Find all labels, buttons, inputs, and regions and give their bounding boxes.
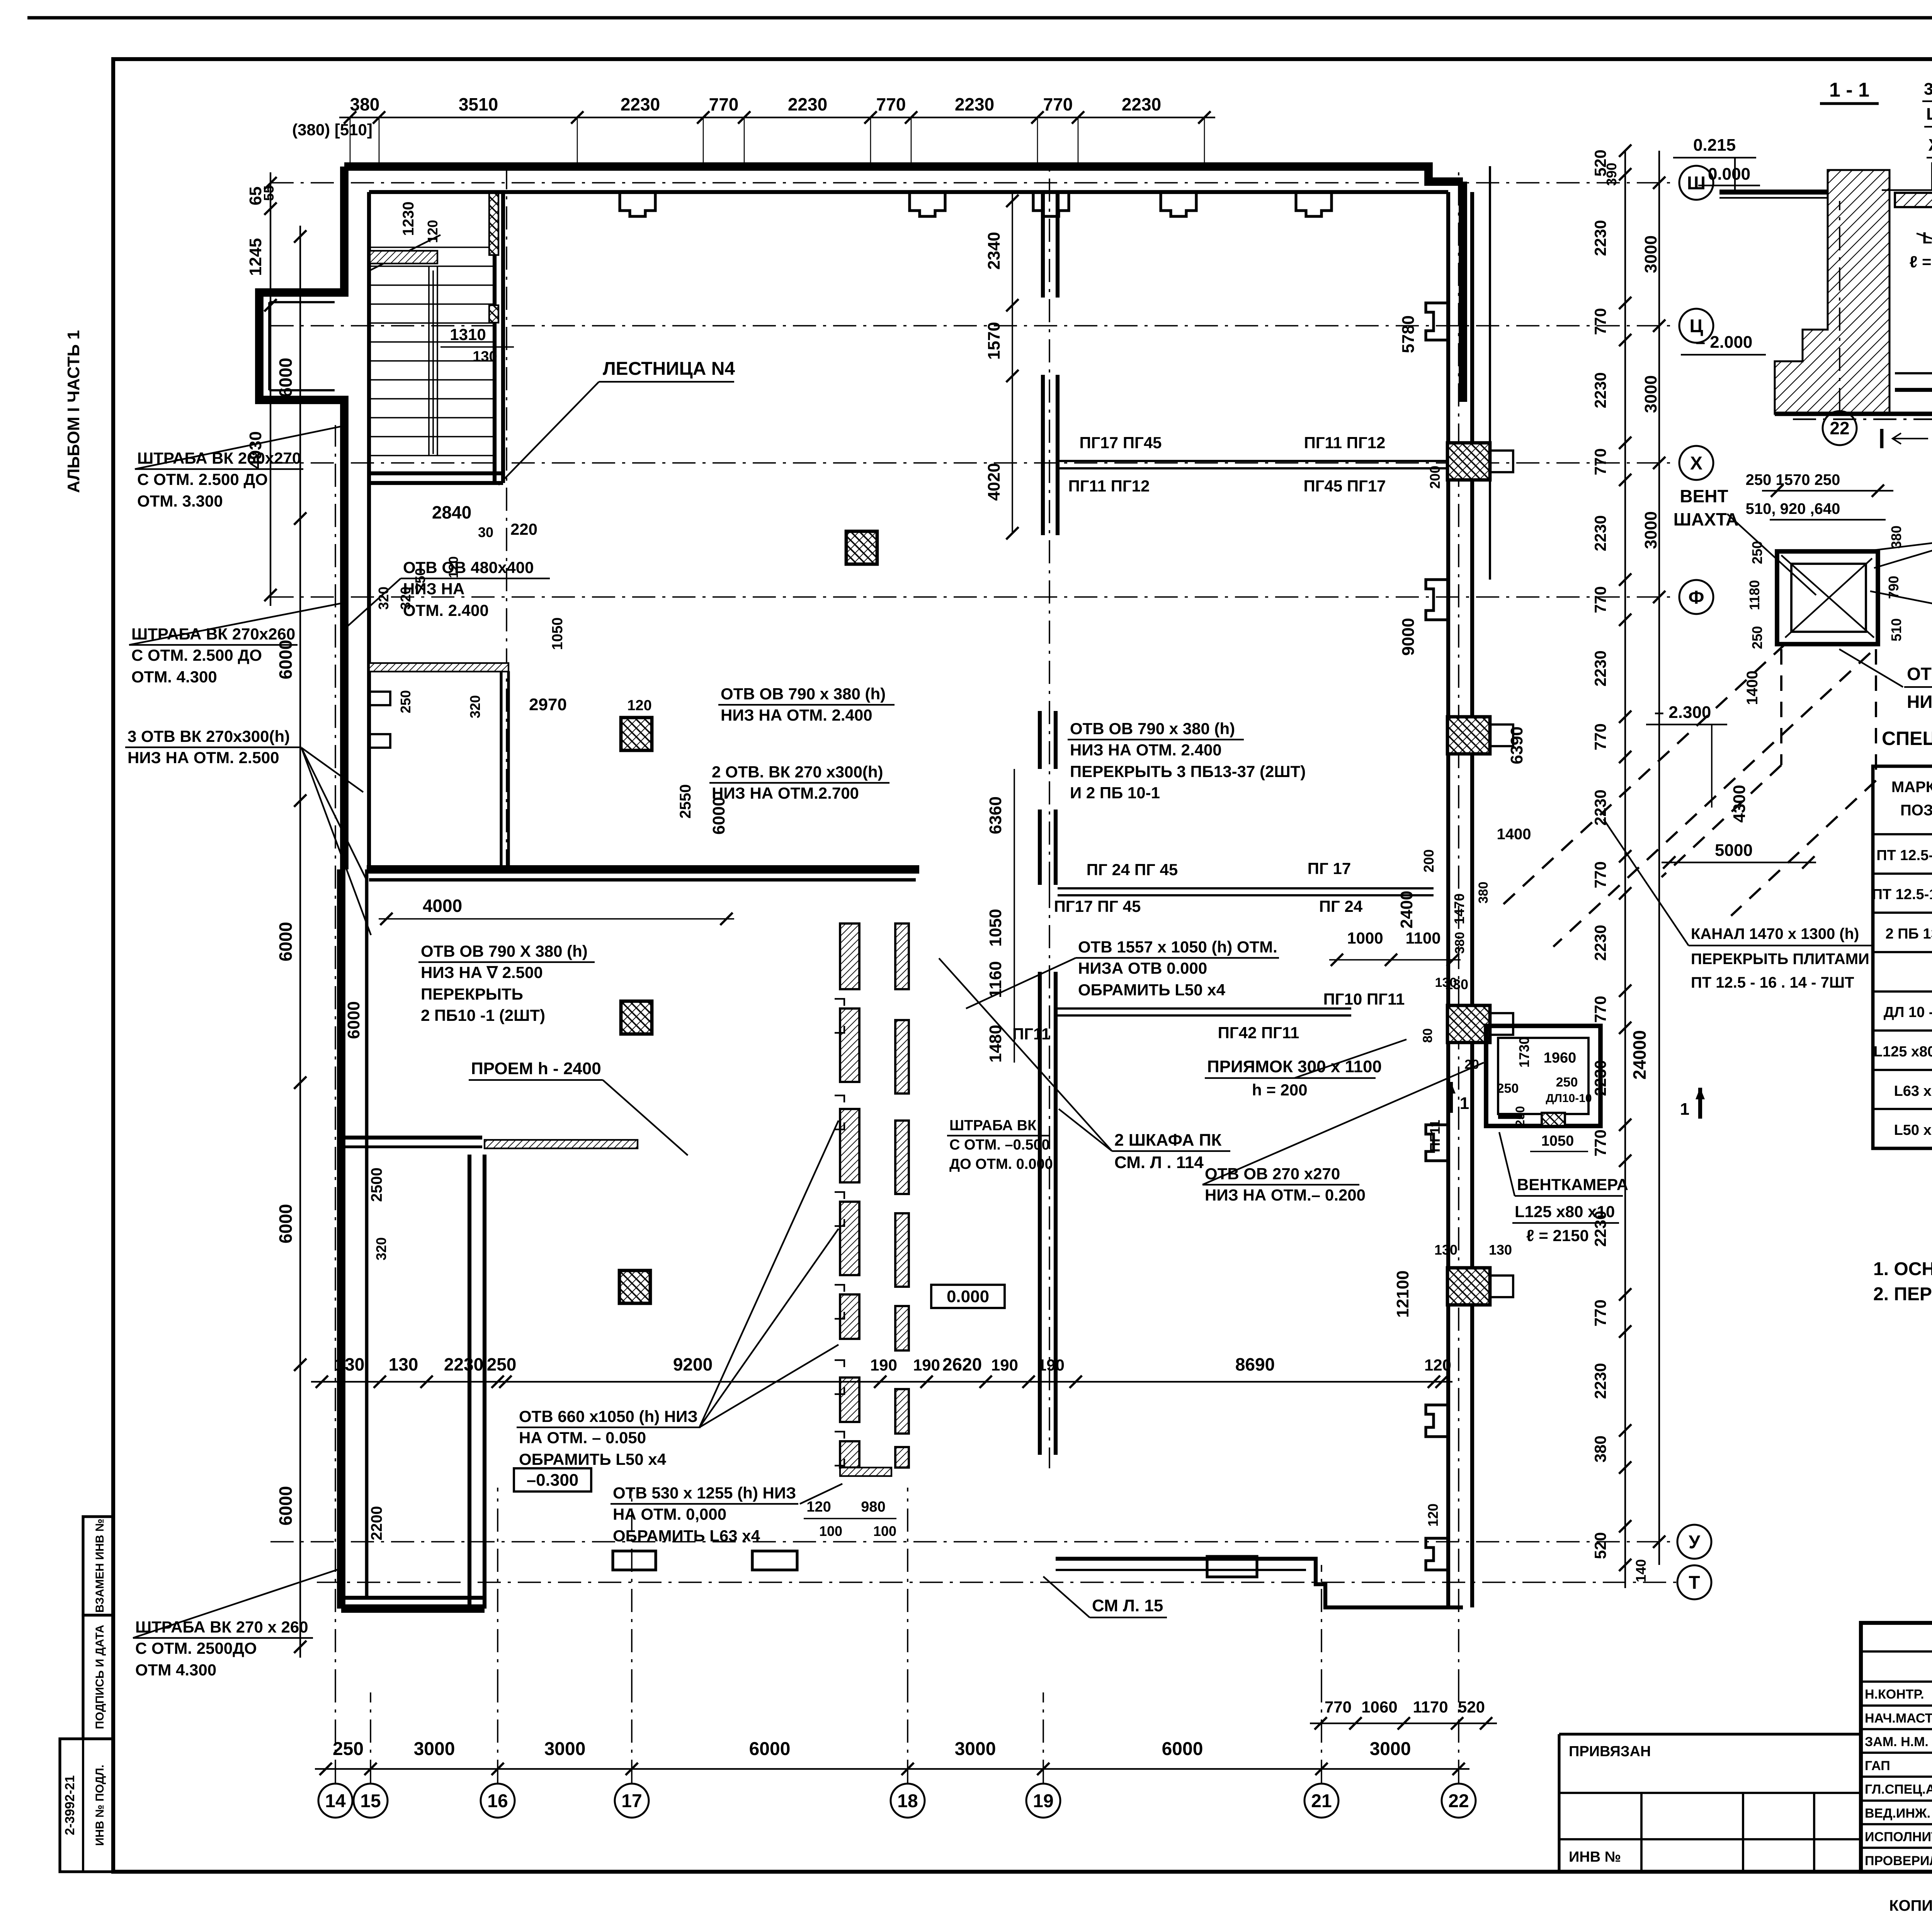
- svg-text:130: 130: [1435, 975, 1457, 990]
- axis line Ts horizontal: [270, 325, 1677, 327]
- corridor bottom return hatched: [840, 1468, 891, 1476]
- note 2: [1873, 1283, 1932, 1304]
- interior dim labels room mid: [344, 690, 734, 1541]
- svg-text:L63 x 4: L63 x 4: [1894, 1083, 1932, 1099]
- svg-text:20: 20: [1464, 1057, 1479, 1072]
- svg-text:380: 380: [350, 94, 380, 114]
- svg-text:ПЕРЕКРЫТЬ 3 ПБ13-37 (2ШТ): ПЕРЕКРЫТЬ 3 ПБ13-37 (2ШТ): [1070, 762, 1306, 781]
- svg-text:НИЗ НА: НИЗ НА: [403, 580, 464, 598]
- partition double line y2618: [1058, 1009, 1351, 1015]
- svg-text:200: 200: [1427, 466, 1443, 489]
- level -0.300 boxed: [514, 1468, 591, 1492]
- svg-text:ГЛ.СПЕЦ.АР: ГЛ.СПЕЦ.АР: [1865, 1782, 1932, 1797]
- svg-text:120: 120: [1425, 1503, 1441, 1527]
- svg-text:190: 190: [991, 1356, 1018, 1374]
- svg-text:770: 770: [1591, 448, 1609, 475]
- svg-text:1480: 1480: [986, 1025, 1005, 1063]
- svg-text:770: 770: [1325, 1698, 1352, 1716]
- corridor door frames: [835, 999, 844, 1466]
- svg-text:6000: 6000: [749, 1739, 791, 1759]
- dim 4300 rotated: [1730, 785, 1749, 823]
- note otv 530x1255: [611, 1484, 842, 1545]
- svg-text:КАНАЛ 1470 х 1300 (h): КАНАЛ 1470 х 1300 (h): [1691, 925, 1859, 942]
- svg-text:2230: 2230: [1591, 650, 1609, 686]
- svg-text:ПГ10 ПГ11: ПГ10 ПГ11: [1323, 990, 1405, 1008]
- svg-text:СМ Л. 15: СМ Л. 15: [1092, 1596, 1163, 1615]
- svg-text:НИЗ НА ОТМ. 2.400: НИЗ НА ОТМ. 2.400: [1070, 741, 1222, 759]
- wall left niche inner lines: [269, 302, 335, 390]
- svg-text:120: 120: [627, 697, 651, 714]
- svg-text:250: 250: [1749, 541, 1765, 564]
- svg-text:520: 520: [1458, 1698, 1485, 1716]
- svg-text:770: 770: [1591, 1299, 1609, 1327]
- svg-text:НИЗ НА ОТМ. 2.500: НИЗ НА ОТМ. 2.500: [128, 748, 279, 767]
- svg-text:130: 130: [335, 1354, 365, 1374]
- note kanal small labels: [1435, 826, 1531, 990]
- svg-text:6000: 6000: [1162, 1739, 1203, 1759]
- svg-text:НИЗ НА ОТМ.– 0.200: НИЗ НА ОТМ.– 0.200: [1205, 1186, 1366, 1204]
- svg-text:3000: 3000: [955, 1739, 996, 1759]
- svg-text:250: 250: [398, 690, 413, 713]
- svg-text:ДО ОТМ. 0.000: ДО ОТМ. 0.000: [949, 1156, 1053, 1172]
- section 1-1 pit floor: [1895, 373, 1932, 390]
- svg-text:ОТВ ОВ 790 Х 380 (h): ОТВ ОВ 790 Х 380 (h): [421, 942, 588, 960]
- svg-text:980: 980: [861, 1499, 885, 1515]
- svg-text:100: 100: [873, 1523, 896, 1539]
- svg-text:ОТМ. 4.300: ОТМ. 4.300: [131, 668, 217, 686]
- svg-text:АЛЬБОМ I ЧАСТЬ 1: АЛЬБОМ I ЧАСТЬ 1: [64, 330, 83, 493]
- svg-text:2 ШКАФА ПК: 2 ШКАФА ПК: [1114, 1131, 1222, 1150]
- svg-text:18: 18: [897, 1791, 918, 1811]
- svg-text:510, 920 ,640: 510, 920 ,640: [1746, 500, 1840, 517]
- svg-text:120: 120: [1424, 1356, 1451, 1374]
- svg-text:250 1570 250: 250 1570 250: [1746, 471, 1840, 488]
- svg-text:L125 х80 х10: L125 х80 х10: [1515, 1202, 1615, 1221]
- svg-text:1180: 1180: [1747, 580, 1762, 610]
- section 1-1 ground line: [1775, 414, 1932, 419]
- svg-text:2230: 2230: [1591, 1363, 1609, 1399]
- svg-text:770: 770: [1591, 308, 1609, 335]
- section 1-1 left pier hatched: [1775, 170, 1889, 414]
- partition x1300 vertical: [501, 671, 509, 869]
- otv 920x1200 label: [1855, 515, 1932, 568]
- svg-text:250: 250: [1556, 1075, 1578, 1090]
- section 1-1 level -2.000 left: [1681, 333, 1766, 355]
- svg-text:2200: 2200: [368, 1506, 385, 1541]
- svg-text:L125 x80 x10: L125 x80 x10: [1874, 1044, 1932, 1060]
- svg-text:190: 190: [913, 1356, 940, 1374]
- svg-text:15: 15: [360, 1791, 381, 1811]
- note otv ov 790x380 bottom: [418, 942, 595, 1024]
- svg-text:НАЧ.МАСТ: НАЧ.МАСТ: [1865, 1711, 1932, 1726]
- svg-text:ЛЕСТНИЦА N4: ЛЕСТНИЦА N4: [603, 359, 735, 379]
- vent shaft label: [1673, 486, 1816, 595]
- svg-text:190: 190: [1037, 1356, 1065, 1374]
- axis line Sh horizontal: [270, 182, 1677, 184]
- svg-text:2500: 2500: [368, 1168, 385, 1202]
- svg-text:3000: 3000: [1641, 375, 1660, 413]
- section 1-1 inner labels: [1910, 205, 1932, 271]
- ventkamera dims: [1464, 1037, 1592, 1151]
- svg-text:1050: 1050: [986, 909, 1005, 947]
- svg-text:ПРОВЕРИЛ: ПРОВЕРИЛ: [1865, 1854, 1932, 1868]
- svg-text:ПОЗ.: ПОЗ.: [1900, 802, 1932, 819]
- svg-text:3000: 3000: [1641, 235, 1660, 273]
- svg-text:1230: 1230: [400, 202, 417, 236]
- stamp box vzamen inv: [83, 1517, 113, 1615]
- svg-text:ПГ42 ПГ11: ПГ42 ПГ11: [1218, 1024, 1299, 1042]
- central partition lower segments: [1040, 711, 1056, 1455]
- axis circles bottom: [318, 1784, 1476, 1818]
- thin hatched wall y2960: [485, 1140, 638, 1148]
- svg-text:1170: 1170: [1413, 1698, 1448, 1716]
- svg-text:770: 770: [1591, 996, 1609, 1023]
- svg-text:80: 80: [1420, 1028, 1435, 1043]
- svg-text:ЗАМ. Н.М.: ЗАМ. Н.М.: [1865, 1735, 1929, 1749]
- svg-text:1310: 1310: [450, 325, 486, 344]
- svg-text:5780: 5780: [1399, 315, 1418, 353]
- note 3 otv vk: [125, 727, 371, 935]
- partition double line y2307: [1058, 888, 1434, 895]
- svg-text:1960: 1960: [1544, 1050, 1577, 1066]
- svg-text:3000: 3000: [1641, 511, 1660, 549]
- svg-text:2550: 2550: [677, 784, 694, 819]
- svg-text:21: 21: [1311, 1791, 1332, 1811]
- bottom secondary chain 770 1060 1170 520: [1310, 1698, 1497, 1730]
- wall left inner upper: [367, 192, 371, 869]
- svg-text:250: 250: [333, 1739, 364, 1759]
- svg-text:ПГ 24: ПГ 24: [1319, 897, 1363, 915]
- svg-text:ОТВ 1557 х 1050 (h) ОТМ.: ОТВ 1557 х 1050 (h) ОТМ.: [1078, 938, 1277, 956]
- svg-text:2 ОТВ. ВК 270 х300(h): 2 ОТВ. ВК 270 х300(h): [712, 763, 883, 781]
- svg-text:(380) [510]: (380) [510]: [292, 121, 372, 139]
- svg-text:2230: 2230: [788, 94, 827, 114]
- svg-text:130: 130: [1434, 1242, 1458, 1258]
- partition double line y1200: [1058, 461, 1447, 468]
- svg-text:1400: 1400: [1744, 671, 1761, 705]
- thin hatched wall y1725: [369, 663, 509, 672]
- svg-text:1: 1: [1680, 1100, 1689, 1119]
- kopiroval text: [1889, 1897, 1932, 1914]
- svg-text:0.000: 0.000: [947, 1287, 989, 1306]
- section 1-1 level 0.215: [1673, 136, 1756, 190]
- right dim chain 2 (3000s): [1641, 151, 1665, 665]
- svg-text:L50 x 4: L50 x 4: [1894, 1122, 1932, 1138]
- svg-text:0.215: 0.215: [1693, 136, 1736, 155]
- svg-text:250: 250: [1749, 626, 1765, 649]
- specification header texts: [1891, 779, 1932, 819]
- svg-text:17: 17: [621, 1791, 642, 1811]
- wall right inner: [1446, 192, 1450, 1607]
- svg-text:У: У: [1689, 1532, 1701, 1553]
- svg-text:НИЗА ОТВ 0.000: НИЗА ОТВ 0.000: [1078, 959, 1207, 977]
- svg-text:770: 770: [1591, 723, 1609, 750]
- svg-text:ОБРАМИТЬ L50 х4: ОБРАМИТЬ L50 х4: [519, 1450, 667, 1468]
- svg-text:14: 14: [325, 1791, 346, 1811]
- svg-text:100: 100: [819, 1523, 842, 1539]
- note priyamok: [1205, 1039, 1406, 1099]
- interior dim labels mid2: [986, 769, 1014, 1063]
- specification rows: [1872, 845, 1932, 1138]
- svg-text:НА ОТМ. 0,000: НА ОТМ. 0,000: [613, 1505, 726, 1523]
- svg-text:120: 120: [806, 1499, 831, 1515]
- pilasters top wall: [620, 192, 1332, 216]
- note shtraba vk -0.500: [947, 1117, 1053, 1172]
- bottom main dimension chain: [315, 1739, 1469, 1775]
- svg-text:130: 130: [1489, 1242, 1512, 1258]
- svg-text:4000: 4000: [423, 896, 462, 916]
- svg-text:ПРИЯМОК 300 х 1100: ПРИЯМОК 300 х 1100: [1207, 1057, 1382, 1076]
- svg-text:250: 250: [1513, 1106, 1527, 1126]
- svg-text:ОБРАМИТЬ L63 х4: ОБРАМИТЬ L63 х4: [613, 1527, 760, 1545]
- svg-text:Ц: Ц: [1689, 316, 1703, 337]
- svg-text:КОПИРОВАЛ.: КОПИРОВАЛ.: [1889, 1897, 1932, 1914]
- bottom wall right part: [1056, 1559, 1463, 1607]
- section 1-1 axis circle 22: [1823, 201, 1857, 445]
- svg-text:1730: 1730: [1516, 1037, 1532, 1068]
- corridor right wall hatched: [895, 923, 909, 1468]
- note shtraba 260x270: [135, 425, 348, 510]
- svg-text:3 ОТВ ВК 270х300(h): 3 ОТВ ВК 270х300(h): [128, 727, 290, 745]
- left inner dim chain 6000s: [276, 226, 306, 1658]
- svg-text:НИЗ НА ОТМ. 2.400: НИЗ НА ОТМ. 2.400: [721, 706, 872, 724]
- interior dims 1050 etc: [412, 556, 652, 714]
- svg-text:1060: 1060: [1361, 1698, 1397, 1716]
- svg-text:770: 770: [1591, 861, 1609, 888]
- title block grid: [1861, 1623, 1932, 1872]
- svg-text:130: 130: [389, 1354, 418, 1374]
- svg-text:770: 770: [1043, 94, 1073, 114]
- svg-text:2-3992-21: 2-3992-21: [63, 1775, 77, 1835]
- svg-text:ВЕД.ИНЖ.: ВЕД.ИНЖ.: [1865, 1806, 1930, 1821]
- svg-text:ОТМ. 3.300: ОТМ. 3.300: [137, 492, 223, 510]
- interior dim labels stair: [376, 202, 537, 610]
- svg-text:Ш: Ш: [1687, 173, 1706, 194]
- album label: [64, 330, 83, 493]
- axis line U horizontal: [270, 1541, 1677, 1543]
- svg-text:ПЕРЕКРЫТЬ ПЛИТАМИ: ПЕРЕКРЫТЬ ПЛИТАМИ: [1691, 951, 1869, 968]
- level 0.000 boxed: [931, 1285, 1005, 1308]
- svg-text:2840: 2840: [432, 502, 471, 522]
- svg-text:ОТМ. 2.400: ОТМ. 2.400: [403, 601, 489, 619]
- svg-text:ПГ17 ПГ 45: ПГ17 ПГ 45: [1054, 897, 1141, 915]
- svg-text:ОТВ 660 х1050 (h) НИЗ: ОТВ 660 х1050 (h) НИЗ: [519, 1407, 698, 1425]
- svg-text:22: 22: [1830, 418, 1849, 438]
- svg-text:770: 770: [1591, 586, 1609, 613]
- svg-text:520: 520: [1591, 1532, 1609, 1559]
- svg-text:380: 380: [1452, 932, 1467, 954]
- note otv ov 790x380 perekryt: [1068, 719, 1306, 802]
- wall mid horizontal thick y2250: [367, 869, 919, 880]
- svg-text:ВЕНТКАМЕРА: ВЕНТКАМЕРА: [1517, 1175, 1628, 1194]
- svg-text:1: 1: [1460, 1094, 1469, 1113]
- svg-text:НИЗ НА ОТМ.2.700: НИЗ НА ОТМ.2.700: [712, 784, 859, 802]
- svg-text:1. ОСНОВНЫЕ ПРИМЕЧАНИЯ ПО КЛА: 1. ОСНОВНЫЕ ПРИМЕЧАНИЯ ПО КЛАДКЕ СМ. Л. …: [1873, 1259, 1932, 1279]
- svg-text:ОТВ 1470 х 1300 (h): ОТВ 1470 х 1300 (h): [1907, 664, 1932, 684]
- svg-text:770: 770: [1591, 1129, 1609, 1156]
- svg-text:Х: Х: [1690, 453, 1702, 474]
- svg-text:3510: 3510: [459, 94, 498, 114]
- dim 5000: [1662, 841, 1816, 869]
- wall right outer: [1463, 166, 1490, 1607]
- svg-text:3000: 3000: [544, 1739, 586, 1759]
- svg-text:1050: 1050: [1541, 1133, 1574, 1149]
- specification table grid: [1873, 766, 1932, 1148]
- svg-text:ОТВ ОВ 270 х270: ОТВ ОВ 270 х270: [1205, 1165, 1340, 1183]
- svg-text:С ОТМ. 2.500 ДО: С ОТМ. 2.500 ДО: [137, 470, 268, 488]
- svg-text:Ж.Б. ПЛИТЫ ПТ 12.5 - 11.9 4Ш: Ж.Б. ПЛИТЫ ПТ 12.5 - 11.9 4ШТ. -80ММ.: [1928, 136, 1932, 155]
- svg-text:24000: 24000: [1629, 1030, 1650, 1080]
- svg-text:Н.КОНТР.: Н.КОНТР.: [1865, 1687, 1924, 1702]
- svg-text:6000: 6000: [276, 358, 296, 397]
- svg-text:16: 16: [487, 1791, 508, 1811]
- svg-text:2230: 2230: [621, 94, 660, 114]
- svg-text:ПГ17 ПГ45: ПГ17 ПГ45: [1079, 434, 1162, 452]
- svg-text:СПЕЦИФИКАЦИЯ МАТЕРИАЛОВ И ИЗДЕ: СПЕЦИФИКАЦИЯ МАТЕРИАЛОВ И ИЗДЕЛИЙ НА ВЕН…: [1882, 727, 1932, 749]
- svg-text:2970: 2970: [529, 695, 567, 714]
- note 2 shkafa pk: [939, 958, 1230, 1172]
- dim 1000 1100: [1329, 929, 1468, 1043]
- svg-text:ПТ 12.5 - 16 . 14 - 7ШТ: ПТ 12.5 - 16 . 14 - 7ШТ: [1691, 974, 1854, 991]
- svg-text:2620: 2620: [942, 1354, 982, 1374]
- svg-text:2 ПБ 13-1: 2 ПБ 13-1: [1886, 926, 1932, 942]
- svg-text:2230: 2230: [1591, 372, 1609, 408]
- svg-text:2230: 2230: [1591, 220, 1609, 256]
- svg-text:– 2.000: – 2.000: [1696, 333, 1753, 352]
- note 2otv vk 270x300: [709, 763, 889, 802]
- svg-text:1570: 1570: [985, 322, 1003, 360]
- svg-text:6000: 6000: [276, 922, 296, 961]
- svg-text:2230: 2230: [444, 1354, 483, 1374]
- svg-text:1000: 1000: [1347, 929, 1383, 947]
- section 1-1 cut mark 2 bottom: [1882, 429, 1932, 457]
- svg-text:2230: 2230: [1591, 925, 1609, 961]
- svg-text:И 2 ПБ 10-1: И 2 ПБ 10-1: [1070, 784, 1160, 802]
- svg-text:6390: 6390: [1507, 726, 1526, 764]
- svg-text:130: 130: [473, 349, 497, 365]
- svg-text:2340: 2340: [985, 232, 1003, 270]
- svg-text:ИСПОЛНИТ: ИСПОЛНИТ: [1865, 1830, 1932, 1844]
- dim 24000 label: [1629, 665, 1665, 1565]
- vent shaft dims right: [1886, 526, 1904, 641]
- svg-text:770: 770: [709, 94, 739, 114]
- note sm l 15: [1043, 1577, 1167, 1617]
- svg-text:380: 380: [1888, 526, 1904, 549]
- svg-text:ДЛ10-10: ДЛ10-10: [1546, 1092, 1592, 1105]
- svg-text:ШТРАБА ВК 270 х 260: ШТРАБА ВК 270 х 260: [135, 1618, 308, 1636]
- svg-text:ПГ11 ПГ12: ПГ11 ПГ12: [1304, 434, 1386, 452]
- svg-text:С ОТМ. 2500ДО: С ОТМ. 2500ДО: [135, 1639, 257, 1657]
- svg-text:3000: 3000: [1370, 1739, 1411, 1759]
- svg-text:55: 55: [261, 185, 277, 201]
- right wall crosshatch columns: [1447, 443, 1513, 1305]
- note 1: [1873, 1259, 1932, 1279]
- svg-text:ИНВ №: ИНВ №: [1569, 1849, 1621, 1865]
- left wall pier tabs: [369, 692, 390, 748]
- svg-text:2 ПБ10 -1 (2ШТ): 2 ПБ10 -1 (2ШТ): [421, 1006, 545, 1024]
- svg-text:6000: 6000: [276, 1204, 296, 1243]
- stair bottom wall: [369, 473, 503, 483]
- svg-text:С ОТМ. –0.500: С ОТМ. –0.500: [949, 1137, 1050, 1153]
- svg-text:С ОТМ. 2.500 ДО: С ОТМ. 2.500 ДО: [131, 646, 262, 664]
- note otv 660x1050: [517, 1121, 838, 1468]
- svg-text:1470: 1470: [1451, 893, 1467, 924]
- stamp box inv no podl: [60, 1739, 113, 1872]
- svg-text:h = 200: h = 200: [1252, 1081, 1308, 1099]
- svg-text:4020: 4020: [985, 463, 1003, 501]
- svg-text:120: 120: [425, 220, 440, 243]
- svg-text:200: 200: [1421, 849, 1437, 872]
- svg-text:ШТРАБА ВК: ШТРАБА ВК: [949, 1117, 1037, 1134]
- svg-text:ОТВ ОВ 480х400: ОТВ ОВ 480х400: [403, 558, 534, 577]
- svg-text:ℓ = 2150 2 ШТ: ℓ = 2150 2 ШТ: [1910, 253, 1932, 271]
- svg-text:12100: 12100: [1393, 1270, 1412, 1318]
- axis circles right side: [1677, 166, 1713, 1599]
- note otv 1557: [966, 938, 1279, 1009]
- svg-text:ПЕРЕКРЫТЬ: ПЕРЕКРЫТЬ: [421, 985, 523, 1003]
- svg-text:22: 22: [1448, 1791, 1469, 1811]
- svg-text:2230: 2230: [955, 94, 994, 114]
- svg-text:220: 220: [510, 520, 537, 538]
- section 1-1 level 0.000: [1698, 165, 1760, 185]
- wall top inner: [369, 190, 1448, 194]
- axis line T horizontal: [317, 1582, 1677, 1583]
- svg-text:ПОДПИСЬ И ДАТА: ПОДПИСЬ И ДАТА: [94, 1625, 106, 1729]
- svg-text:3000: 3000: [414, 1739, 455, 1759]
- wall top outer: [344, 167, 1463, 182]
- svg-text:СМ. Л . 114: СМ. Л . 114: [1114, 1153, 1204, 1172]
- corridor left wall hatched: [840, 923, 859, 1468]
- svg-text:ПРИВЯЗАН: ПРИВЯЗАН: [1569, 1743, 1651, 1760]
- wall bottom-left horizontal y2950: [341, 1138, 482, 1147]
- left outer dim chain: [246, 172, 277, 606]
- otv 790x1200 label: [1870, 591, 1932, 641]
- label 9200 region small pg: [1427, 1120, 1443, 1152]
- svg-text:ОТВ ОВ 790 х 380 (h): ОТВ ОВ 790 х 380 (h): [721, 685, 886, 703]
- svg-text:250: 250: [487, 1354, 517, 1374]
- svg-text:ПГ11 ПГ12: ПГ11 ПГ12: [1068, 477, 1150, 495]
- section 1-1 pit top slab: [1882, 190, 1932, 207]
- kanal dashed lines: [1499, 644, 1876, 947]
- top chain extension lines: [350, 117, 1204, 164]
- wall left outer upper: [259, 167, 344, 869]
- svg-text:2230: 2230: [1591, 515, 1609, 551]
- otv 1470x1300 label: [1839, 649, 1932, 712]
- pg labels row2: [1054, 859, 1363, 915]
- svg-text:0.000: 0.000: [1708, 165, 1750, 184]
- svg-text:МАРКА: МАРКА: [1891, 779, 1932, 796]
- svg-text:1100: 1100: [1405, 929, 1440, 947]
- svg-text:ЦЕМЕНТНО-ПЕСЧАНАЯ СТЯЖКА-20 -: ЦЕМЕНТНО-ПЕСЧАНАЯ СТЯЖКА-20 -40 ММ: [1926, 105, 1932, 124]
- ventkamera chamber: [1486, 1026, 1600, 1126]
- level -2.300: [1646, 703, 1727, 808]
- svg-text:6360: 6360: [986, 796, 1005, 834]
- svg-text:ОТМ 4.300: ОТМ 4.300: [135, 1661, 216, 1679]
- wall left outer lower: [337, 869, 345, 1609]
- wall left inner lower: [365, 869, 369, 1598]
- vent shaft dims left: [1744, 541, 1765, 705]
- svg-text:4300: 4300: [1730, 785, 1749, 823]
- stamp box podpis i data: [83, 1615, 113, 1739]
- svg-text:–0.300: –0.300: [527, 1471, 579, 1490]
- svg-text:1245: 1245: [246, 238, 265, 276]
- wall bottom-left inner vertical: [469, 1155, 485, 1609]
- right wall pilasters: [1426, 303, 1448, 1570]
- svg-text:320: 320: [373, 1237, 389, 1260]
- svg-text:ПГ11: ПГ11: [1012, 1025, 1050, 1043]
- note otv ov 790x380 left: [718, 685, 895, 724]
- svg-text:320: 320: [467, 695, 483, 718]
